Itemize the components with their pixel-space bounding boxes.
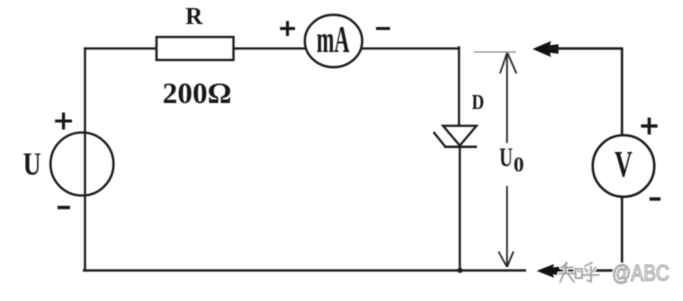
measurement line U0 upper segment with up arrow bbox=[500, 53, 517, 143]
polarity − of voltmeter bbox=[650, 197, 661, 200]
svg-text:@ABC: @ABC bbox=[612, 262, 669, 286]
watermark white underlay 知 bbox=[559, 263, 599, 283]
resistor R1 body bbox=[157, 37, 234, 60]
wire right vertical into diode bbox=[458, 47, 460, 126]
diode D (zener) triangle bbox=[443, 126, 477, 146]
voltmeter V circle bbox=[593, 135, 655, 197]
svg-text:200Ω: 200Ω bbox=[162, 77, 231, 110]
polarity + of voltmeter bbox=[641, 118, 658, 135]
junction diode branch / bottom wire bbox=[457, 268, 462, 273]
polarity − of source bbox=[58, 206, 71, 209]
watermark gray strokes 知 bbox=[559, 263, 582, 283]
ammeter label mA bbox=[316, 19, 349, 61]
wire bottom horizontal bbox=[84, 269, 525, 271]
arrow top-right pointing left bbox=[533, 41, 559, 57]
svg-text:0: 0 bbox=[514, 153, 525, 177]
svg-text:R: R bbox=[185, 4, 203, 30]
voltmeter label V bbox=[615, 144, 633, 185]
watermark gray strokes 乎 bbox=[582, 263, 599, 282]
polarity + of source bbox=[55, 113, 72, 130]
wire diode cathode to bottom bbox=[459, 147, 461, 272]
polarity − of ammeter bbox=[376, 27, 390, 30]
label U bbox=[23, 147, 41, 183]
watermark 知乎 @ABC bbox=[559, 262, 669, 286]
diode cathode bar bbox=[444, 146, 477, 148]
ammeter U-mA circle bbox=[305, 15, 362, 67]
watermark text @ABC bbox=[612, 262, 669, 286]
label D bbox=[472, 91, 484, 114]
arrow bottom-right pointing left bbox=[537, 264, 561, 278]
svg-text:V: V bbox=[615, 144, 633, 185]
wire resistor to diode corner (mA circle overlays middle) bbox=[233, 47, 459, 49]
wire left vertical (through source) bbox=[84, 47, 86, 271]
svg-text:D: D bbox=[472, 91, 484, 114]
measurement tick top bbox=[474, 51, 516, 53]
zener bend (left diagonal) bbox=[434, 132, 446, 146]
svg-text:U: U bbox=[23, 147, 41, 183]
svg-text:mA: mA bbox=[316, 19, 349, 61]
wire voltmeter branch bottom bbox=[550, 196, 622, 271]
label U0 bbox=[499, 143, 513, 172]
wire voltmeter branch top bbox=[549, 49, 622, 138]
source U circle bbox=[51, 133, 114, 196]
measurement line U0 lower segment with down arrow bbox=[499, 186, 514, 267]
polarity + of ammeter bbox=[280, 21, 295, 36]
svg-text:U: U bbox=[499, 143, 513, 172]
wire top-left horizontal bbox=[85, 47, 158, 49]
